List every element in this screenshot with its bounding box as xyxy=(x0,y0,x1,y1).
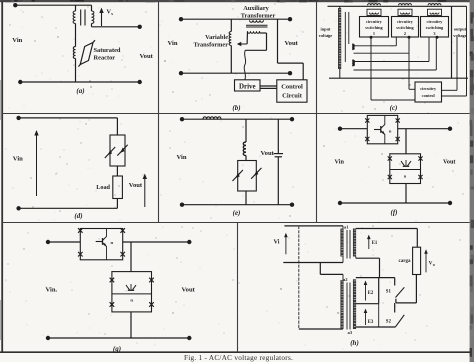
svg-text:Reactor: Reactor xyxy=(94,55,116,62)
svg-text:1: 1 xyxy=(373,31,375,36)
svg-text:Vout: Vout xyxy=(140,53,154,60)
svg-text:Vin: Vin xyxy=(335,159,345,166)
svg-text:Transformer: Transformer xyxy=(241,12,276,19)
svg-text:voltage: voltage xyxy=(319,33,332,38)
svg-text:(a): (a) xyxy=(76,87,84,95)
svg-text:Vout: Vout xyxy=(443,159,456,166)
svg-text:circuitry: circuitry xyxy=(427,19,444,24)
svg-text:Vout: Vout xyxy=(129,182,143,189)
svg-text:output: output xyxy=(454,27,467,32)
svg-text:E3: E3 xyxy=(368,320,374,325)
svg-text:Fig. 1 - AC/AC voltage regulat: Fig. 1 - AC/AC voltage regulators. xyxy=(184,354,293,362)
svg-text:(b): (b) xyxy=(232,104,240,112)
svg-text:n: n xyxy=(130,298,133,303)
svg-text:(f): (f) xyxy=(391,209,398,217)
svg-text:s: s xyxy=(111,11,113,16)
svg-text:a2: a2 xyxy=(343,277,348,282)
svg-text:(e): (e) xyxy=(233,209,241,217)
svg-text:S2: S2 xyxy=(386,320,392,325)
svg-text:Vout: Vout xyxy=(182,286,196,293)
svg-text:Load: Load xyxy=(96,184,110,191)
svg-text:E1: E1 xyxy=(372,241,378,246)
svg-text:Auxiliary: Auxiliary xyxy=(243,5,269,12)
svg-text:(d): (d) xyxy=(74,212,82,220)
svg-text:Vout: Vout xyxy=(285,40,299,47)
svg-text:Variable: Variable xyxy=(205,34,228,41)
svg-text:circuitry: circuitry xyxy=(397,19,414,24)
svg-text:(c): (c) xyxy=(390,104,398,112)
svg-text:voltage: voltage xyxy=(453,33,466,38)
svg-text:circuitry: circuitry xyxy=(420,86,437,91)
svg-text:Vin: Vin xyxy=(177,154,187,161)
svg-text:n: n xyxy=(111,240,114,245)
svg-text:(h): (h) xyxy=(350,339,359,347)
svg-text:Vin: Vin xyxy=(13,156,23,163)
svg-text:switching: switching xyxy=(396,25,414,30)
svg-text:carga: carga xyxy=(399,259,411,264)
svg-text:Transformer: Transformer xyxy=(193,41,228,48)
svg-text:switching: switching xyxy=(365,25,383,30)
svg-text:(g): (g) xyxy=(113,345,121,353)
svg-text:Saturated: Saturated xyxy=(94,47,121,54)
svg-text:Vin.: Vin. xyxy=(46,286,58,293)
svg-text:control: control xyxy=(422,93,436,98)
svg-text:3: 3 xyxy=(433,31,435,36)
svg-text:Vout: Vout xyxy=(261,150,275,157)
svg-text:o: o xyxy=(433,262,435,267)
svg-text:E2: E2 xyxy=(368,291,374,296)
svg-text:Vi: Vi xyxy=(274,239,280,246)
svg-text:Vin: Vin xyxy=(12,37,22,44)
svg-text:Circuit: Circuit xyxy=(282,93,303,100)
svg-text:2: 2 xyxy=(404,31,406,36)
svg-text:input: input xyxy=(320,27,331,32)
svg-text:Control: Control xyxy=(281,84,303,91)
svg-text:S1: S1 xyxy=(386,290,392,295)
svg-text:Vin: Vin xyxy=(168,40,178,47)
svg-text:a1: a1 xyxy=(344,225,349,230)
svg-text:a3: a3 xyxy=(348,330,353,335)
svg-text:switching: switching xyxy=(426,25,444,30)
svg-text:circuitry: circuitry xyxy=(366,19,383,24)
svg-text:Drive: Drive xyxy=(239,83,256,91)
